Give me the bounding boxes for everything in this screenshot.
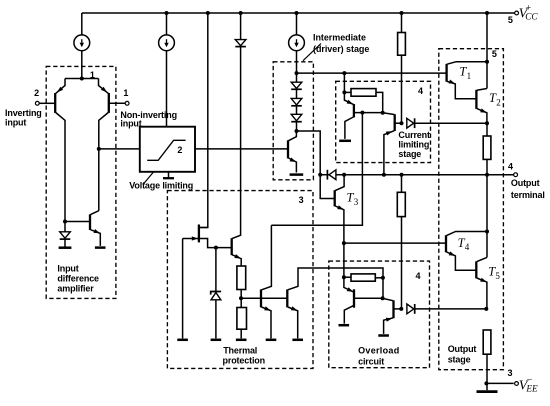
svg-text:Input: Input (57, 263, 78, 273)
svg-text:2: 2 (496, 97, 501, 107)
svg-text:input: input (5, 118, 26, 128)
svg-text:EE: EE (525, 384, 538, 394)
svg-text:CC: CC (525, 11, 538, 21)
svg-text:4: 4 (418, 86, 423, 96)
svg-text:circuit: circuit (358, 357, 384, 367)
svg-text:terminal: terminal (511, 190, 545, 200)
svg-text:stage: stage (448, 355, 471, 365)
svg-text:Inverting: Inverting (5, 108, 42, 118)
svg-text:difference: difference (57, 273, 99, 283)
svg-text:Voltage limiting: Voltage limiting (129, 180, 193, 190)
svg-text:(driver) stage: (driver) stage (313, 44, 369, 54)
svg-text:amplifier: amplifier (57, 283, 94, 293)
svg-text:1: 1 (123, 88, 128, 98)
svg-text:5: 5 (495, 271, 500, 281)
svg-text:protection: protection (223, 356, 266, 366)
svg-text:Output: Output (448, 344, 477, 354)
svg-text:3: 3 (299, 195, 304, 205)
svg-text:Overload: Overload (358, 345, 399, 355)
svg-text:4: 4 (508, 162, 513, 172)
svg-text:Thermal: Thermal (223, 345, 257, 355)
svg-text:Current: Current (398, 130, 430, 140)
svg-text:4: 4 (465, 242, 470, 252)
svg-text:stage: stage (398, 149, 421, 159)
svg-text:4: 4 (415, 271, 420, 281)
svg-text:input: input (120, 118, 141, 128)
svg-text:2: 2 (177, 145, 182, 155)
svg-text:limiting: limiting (398, 139, 429, 149)
svg-text:1: 1 (467, 71, 472, 81)
svg-text:Output: Output (511, 178, 540, 188)
svg-text:1: 1 (90, 70, 95, 80)
svg-text:3: 3 (354, 197, 359, 207)
svg-text:2: 2 (34, 88, 39, 98)
svg-text:5: 5 (508, 15, 513, 25)
svg-text:Intermediate: Intermediate (313, 32, 366, 42)
svg-text:3: 3 (507, 368, 512, 378)
svg-text:5: 5 (492, 49, 497, 59)
